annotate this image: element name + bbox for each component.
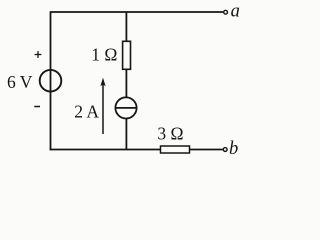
wire: bottom rail right of 3-ohm resistor to terminal b	[190, 149, 223, 151]
svg-text:3 Ω: 3 Ω	[157, 123, 183, 143]
current source I1 (circle with horizontal bar)	[115, 97, 136, 118]
svg-text:1 Ω: 1 Ω	[91, 45, 117, 65]
wire: top rail from top-left corner to terminal a	[51, 11, 224, 13]
resistor R1 1-ohm (vertical box)	[123, 41, 131, 69]
wire: bottom rail left of 3-ohm resistor	[50, 149, 161, 151]
resistor R2 3-ohm (horizontal box)	[161, 146, 190, 153]
terminal a (open circle)	[224, 10, 228, 14]
svg-text:6 V: 6 V	[7, 72, 33, 92]
wire: middle branch top (top rail to 1-ohm resistor)	[125, 12, 127, 41]
wire: left rail (passes through voltage source)	[50, 11, 52, 150]
terminal b (open circle)	[223, 148, 227, 152]
wire: middle branch bottom (current source to bottom rail)	[125, 118, 127, 149]
svg-text:b: b	[229, 139, 238, 159]
wire: middle branch middle (1-ohm resistor to current source)	[125, 69, 127, 97]
voltage source minus sign	[34, 106, 40, 108]
svg-text:a: a	[231, 2, 240, 22]
voltage source plus sign	[35, 51, 42, 58]
svg-text:2 A: 2 A	[74, 101, 99, 121]
voltage source V1 (circle, wire passes through)	[40, 70, 62, 92]
current direction arrow for 2 A	[100, 78, 105, 134]
